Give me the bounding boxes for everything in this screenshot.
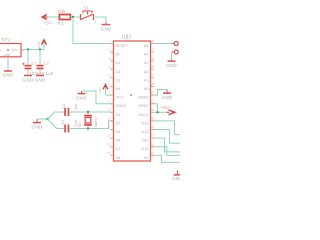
resistor R1 <box>58 9 71 26</box>
svg-text:15: 15 <box>151 152 154 155</box>
svg-text:D9: D9 <box>144 156 149 160</box>
svg-text:A1: A1 <box>144 78 149 82</box>
svg-text:8: 8 <box>109 100 111 103</box>
right pin numbers <box>151 40 154 155</box>
wire D13 out <box>154 121 181 135</box>
wire D9 out <box>154 155 181 162</box>
svg-text:D0: D0 <box>116 53 121 57</box>
svg-text:VI: VI <box>0 49 2 53</box>
svg-text:1: 1 <box>109 40 111 43</box>
junction crystal top <box>87 111 89 113</box>
svg-text:RESET: RESET <box>116 44 129 48</box>
svg-text:VO: VO <box>12 49 18 53</box>
svg-text:D10: D10 <box>142 147 149 151</box>
wire pad2 to ground <box>171 52 174 60</box>
svg-text:KTV: KTV <box>2 37 11 42</box>
wire AVCC to +5V <box>154 111 169 113</box>
svg-text:GND: GND <box>32 125 43 130</box>
svg-text:22: 22 <box>151 92 154 95</box>
svg-text:16MHz: 16MHz <box>94 117 98 129</box>
svg-text:13: 13 <box>107 143 110 146</box>
svg-text:D2: D2 <box>116 70 121 74</box>
svg-text:27: 27 <box>151 49 154 52</box>
wire D12 out <box>154 130 181 144</box>
svg-text:AVCC: AVCC <box>138 113 149 117</box>
svg-text:5: 5 <box>109 75 111 78</box>
svg-text:D5: D5 <box>116 130 121 134</box>
wire VCC to +5V <box>106 94 111 96</box>
crystal Q1 <box>78 112 99 130</box>
wire C2 bottom <box>39 69 41 75</box>
wire AREF to AVCC <box>154 104 158 113</box>
svg-text:R1: R1 <box>58 21 64 26</box>
pushbutton S1 <box>77 5 97 24</box>
voltage regulator IC1 <box>0 37 24 59</box>
svg-text:3: 3 <box>109 57 111 60</box>
svg-text:GND: GND <box>76 96 87 101</box>
svg-text:VCC: VCC <box>116 96 124 100</box>
svg-text:AREF: AREF <box>138 104 149 108</box>
ground (crystal caps) <box>32 119 43 130</box>
left pin names <box>116 44 129 160</box>
junction C1 tap <box>27 48 29 50</box>
svg-text:6: 6 <box>109 83 111 86</box>
right pin names <box>138 44 149 160</box>
ground (pad2) <box>166 60 177 69</box>
wire C1 bottom <box>27 69 29 75</box>
supply +5V arrow (AVCC) <box>160 105 175 115</box>
svg-text:X1: X1 <box>116 113 121 117</box>
svg-text:20: 20 <box>151 109 154 112</box>
svg-text:GND: GND <box>162 95 173 100</box>
ground (IC GND1) <box>76 91 87 101</box>
svg-text:D12: D12 <box>142 130 149 134</box>
wire C1 top <box>27 50 29 65</box>
svg-text:9: 9 <box>109 109 111 112</box>
svg-text:X2: X2 <box>116 121 121 125</box>
ground (S1) <box>101 22 112 31</box>
svg-text:+5V: +5V <box>99 87 103 94</box>
wire to C3 <box>48 112 65 119</box>
svg-text:4: 4 <box>109 66 111 69</box>
svg-text:D1: D1 <box>116 61 121 65</box>
svg-text:A3: A3 <box>144 61 149 65</box>
capacitor C4 <box>61 120 78 133</box>
ground (C1) <box>23 76 34 83</box>
ground (regulator) <box>3 70 14 78</box>
svg-text:C4: C4 <box>61 120 65 125</box>
svg-text:21: 21 <box>151 100 154 103</box>
svg-text:GND: GND <box>23 78 34 83</box>
capacitor C3 <box>62 103 78 116</box>
svg-text:D8: D8 <box>116 156 121 160</box>
svg-text:26: 26 <box>151 57 154 60</box>
svg-text:D7: D7 <box>116 147 121 151</box>
svg-text:+5V: +5V <box>38 41 42 48</box>
IC U$1 (ATmega) <box>107 35 154 161</box>
svg-text:10: 10 <box>107 118 110 121</box>
wire to C4 <box>48 119 65 129</box>
svg-text:14: 14 <box>107 152 110 155</box>
svg-text:D6: D6 <box>116 139 121 143</box>
wire GND2 to ground <box>154 90 168 96</box>
ground (GND2) <box>162 90 173 101</box>
svg-text:17: 17 <box>151 135 154 138</box>
wire caps common to ground <box>37 118 48 120</box>
svg-text:2: 2 <box>109 49 111 52</box>
svg-text:GND: GND <box>35 78 46 83</box>
svg-text:GND1: GND1 <box>116 104 127 108</box>
svg-text:D13: D13 <box>142 121 149 125</box>
left pin numbers <box>107 40 110 155</box>
svg-text:GND: GND <box>4 53 12 57</box>
svg-text:28: 28 <box>151 40 154 43</box>
svg-text:24: 24 <box>151 75 154 78</box>
svg-text:D11: D11 <box>142 139 149 143</box>
svg-text:1: 1 <box>77 21 79 25</box>
svg-text:2: 2 <box>95 21 97 25</box>
svg-text:GND2: GND2 <box>138 96 149 100</box>
svg-text:+5V: +5V <box>160 105 170 110</box>
svg-text:GND: GND <box>166 63 177 68</box>
svg-text:12: 12 <box>107 135 110 138</box>
right pin stubs <box>151 44 154 156</box>
svg-text:7: 7 <box>109 92 111 95</box>
svg-text:GND: GND <box>172 176 180 180</box>
svg-text:A0: A0 <box>144 87 149 91</box>
svg-text:19: 19 <box>151 118 154 121</box>
ground (C2) <box>35 76 46 83</box>
capacitor C1 <box>22 61 42 76</box>
svg-text:U$1: U$1 <box>122 35 132 41</box>
svg-text:D4: D4 <box>116 87 121 91</box>
svg-text:10k: 10k <box>58 9 67 14</box>
supply +5V arrow (top left, reset pullup) <box>42 15 53 26</box>
svg-text:16: 16 <box>151 143 154 146</box>
junction reset node <box>72 16 74 18</box>
wire regulator GND <box>7 59 9 70</box>
svg-text:GND: GND <box>3 73 14 78</box>
wire D10 out <box>154 147 181 156</box>
connector pad 2 <box>172 50 178 54</box>
svg-text:C3: C3 <box>62 104 66 109</box>
capacitor C2 <box>37 61 54 76</box>
junction crystal bottom <box>87 127 89 129</box>
junction AREF/AVCC <box>156 111 158 113</box>
wire +5V to R1 <box>48 16 60 18</box>
wire D11 out <box>154 138 181 152</box>
svg-text:18: 18 <box>151 126 154 129</box>
svg-text:A5: A5 <box>144 44 149 48</box>
wire C4 to X2 <box>70 121 111 129</box>
svg-text:22p: 22p <box>74 103 78 110</box>
svg-text:A4: A4 <box>144 53 149 57</box>
svg-text:25: 25 <box>151 66 154 69</box>
svg-text:D3: D3 <box>116 78 121 82</box>
junction C2 tap <box>39 48 41 50</box>
wire C3 to X1 <box>70 111 111 113</box>
wire R1 to junction to S1 <box>71 16 81 18</box>
ground (bottom right corner) <box>172 170 183 181</box>
svg-text:C2: C2 <box>44 61 50 66</box>
wire C2 top <box>39 50 41 65</box>
wire S1 to ground <box>95 17 106 22</box>
wire A5 to connector <box>154 43 173 45</box>
wire VO +5V net <box>24 49 44 51</box>
connector pad 1 <box>172 42 178 46</box>
supply +5V arrow (VCC) <box>99 85 108 96</box>
svg-text:S1: S1 <box>84 5 90 10</box>
supply +5V arrow (regulator output) <box>38 40 47 50</box>
svg-text:23: 23 <box>151 83 154 86</box>
junction caps common <box>46 118 48 120</box>
svg-text:GND: GND <box>101 27 112 32</box>
svg-text:A2: A2 <box>144 70 149 74</box>
svg-text:+5V: +5V <box>43 21 53 26</box>
left pin stubs <box>111 44 114 156</box>
svg-text:Q1: Q1 <box>78 122 82 127</box>
wire GND1 to ground <box>82 91 111 104</box>
wire reset net to IC <box>73 17 111 44</box>
